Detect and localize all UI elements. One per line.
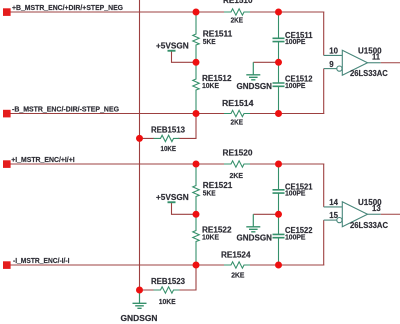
junction at ground node upper xyxy=(275,59,282,66)
port -B_MSTR_ENC/-DIR/-STEP_NEG xyxy=(3,105,119,118)
svg-text:10KE: 10KE xyxy=(159,297,176,306)
svg-text:GNDSGN: GNDSGN xyxy=(121,314,158,323)
svg-text:14: 14 xyxy=(329,198,338,207)
wire net +B_MSTR_ENC row right segment xyxy=(250,11,324,13)
resistor RE1522 xyxy=(193,214,232,265)
svg-text:9: 9 xyxy=(329,60,334,69)
op-amp U1500 lower 26LS33AC xyxy=(324,198,389,230)
junction at CE1521 top xyxy=(275,161,282,168)
power +5VSGN lower xyxy=(156,193,189,203)
svg-text:5KE: 5KE xyxy=(203,37,216,46)
svg-text:RE1514: RE1514 xyxy=(222,99,254,108)
resistor RE1524 xyxy=(221,251,251,280)
svg-text:U1500: U1500 xyxy=(358,198,382,207)
resistor REB1513 xyxy=(151,125,186,153)
wire REB1523 branch xyxy=(140,265,197,290)
wire output pin 11 xyxy=(381,62,400,64)
capacitor CE1521 xyxy=(273,164,314,214)
svg-text:+I_MSTR_ENC/+I/+I: +I_MSTR_ENC/+I/+I xyxy=(11,155,74,164)
junction at REB1523 left xyxy=(136,287,143,294)
resistor RE1520 xyxy=(223,149,254,181)
ground GNDSGN bottom xyxy=(121,290,158,323)
svg-text:+5VSGN: +5VSGN xyxy=(156,41,189,50)
junction at CE1511 top xyxy=(275,9,282,16)
wire +5VSGN feed upper xyxy=(172,52,197,63)
ground GNDSGN upper xyxy=(237,62,273,91)
junction at CE1512 bottom xyxy=(275,110,282,117)
resistor RE1512 xyxy=(193,62,232,113)
op-amp U1500 upper 26LS33AC xyxy=(324,47,388,78)
svg-text:+B_MSTR_ENC/+DIR/+STEP_NEG: +B_MSTR_ENC/+DIR/+STEP_NEG xyxy=(12,3,123,12)
svg-text:10KE: 10KE xyxy=(161,144,177,153)
wire ground stub upper xyxy=(253,61,278,63)
svg-text:15: 15 xyxy=(329,211,338,220)
wire net -B_MSTR_ENC row left segment xyxy=(10,113,224,115)
svg-text:GNDSGN: GNDSGN xyxy=(237,234,273,243)
svg-text:5KE: 5KE xyxy=(203,188,216,197)
wire ground stub lower xyxy=(253,213,278,215)
svg-text:10KE: 10KE xyxy=(202,233,219,242)
svg-text:100PE: 100PE xyxy=(285,189,306,198)
svg-text:RE1520: RE1520 xyxy=(223,149,254,158)
svg-text:GNDSGN: GNDSGN xyxy=(237,82,273,91)
svg-text:-B_MSTR_ENC/-DIR/-STEP_NEG: -B_MSTR_ENC/-DIR/-STEP_NEG xyxy=(12,105,119,114)
resistor REB1523 xyxy=(151,277,186,306)
junction at RE1522 bottom xyxy=(193,262,200,269)
junction at ground node lower xyxy=(275,211,282,218)
svg-text:+5VSGN: +5VSGN xyxy=(156,193,189,202)
svg-text:RE1510: RE1510 xyxy=(223,0,253,5)
junction at RE1521 top xyxy=(193,161,200,168)
svg-text:-I_MSTR_ENC/-I/-I: -I_MSTR_ENC/-I/-I xyxy=(13,256,70,265)
svg-text:RE1524: RE1524 xyxy=(221,251,251,260)
svg-text:2KE: 2KE xyxy=(231,271,244,280)
junction at +5V node upper xyxy=(193,59,200,66)
junction at +5V node lower xyxy=(193,211,200,218)
wire vertical rise to pin 9 xyxy=(323,69,325,114)
junction at RE1511 top xyxy=(193,9,200,16)
svg-text:2KE: 2KE xyxy=(231,16,244,25)
wire net -I_MSTR_ENC row left segment xyxy=(10,264,224,266)
capacitor CE1511 xyxy=(273,12,314,62)
svg-text:REB1523: REB1523 xyxy=(151,277,186,286)
wire REB1513 branch xyxy=(140,114,197,139)
capacitor CE1522 xyxy=(273,214,314,265)
junction at CE1522 bottom xyxy=(275,262,282,269)
svg-text:26LS33AC: 26LS33AC xyxy=(350,221,388,230)
power +5VSGN upper xyxy=(156,41,189,51)
port +I_MSTR_ENC/+I/+I xyxy=(3,155,75,168)
svg-text:REB1513: REB1513 xyxy=(151,125,186,134)
wire net -I_MSTR_ENC row right segment xyxy=(250,264,324,266)
svg-text:26LS33AC: 26LS33AC xyxy=(350,69,388,78)
wire vertical drop to pin 10 xyxy=(323,12,325,56)
resistor RE1510 xyxy=(223,0,253,25)
svg-text:10KE: 10KE xyxy=(202,81,219,90)
capacitor CE1512 xyxy=(273,62,314,113)
svg-text:10: 10 xyxy=(329,47,338,56)
svg-text:U1500: U1500 xyxy=(358,47,382,56)
wire +5VSGN feed lower xyxy=(172,203,197,214)
ground GNDSGN lower xyxy=(237,214,273,242)
port +B_MSTR_ENC/+DIR/+STEP_NEG xyxy=(3,3,123,16)
node GND rail vertical wire xyxy=(139,0,141,290)
resistor RE1514 xyxy=(222,99,254,127)
wire net +I_MSTR_ENC row left segment xyxy=(10,163,224,165)
port -I_MSTR_ENC/-I/-I xyxy=(3,256,70,269)
resistor RE1511 xyxy=(193,12,233,62)
svg-text:100PE: 100PE xyxy=(285,232,306,241)
svg-text:100PE: 100PE xyxy=(285,37,306,46)
wire output pin 13 xyxy=(381,213,400,215)
wire net -B_MSTR_ENC row right segment xyxy=(250,113,324,115)
svg-text:100PE: 100PE xyxy=(285,81,306,90)
svg-text:2KE: 2KE xyxy=(230,171,244,180)
wire net +I_MSTR_ENC row right segment xyxy=(250,163,324,165)
svg-text:2KE: 2KE xyxy=(231,118,244,127)
junction at RE1512 bottom xyxy=(193,110,200,117)
wire net +B_MSTR_ENC row left segment xyxy=(10,11,224,13)
resistor RE1521 xyxy=(193,164,233,214)
wire vertical drop to pin 14 xyxy=(323,164,325,207)
junction at REB1513 left xyxy=(136,135,143,142)
wire vertical rise to pin 15 xyxy=(323,220,325,265)
